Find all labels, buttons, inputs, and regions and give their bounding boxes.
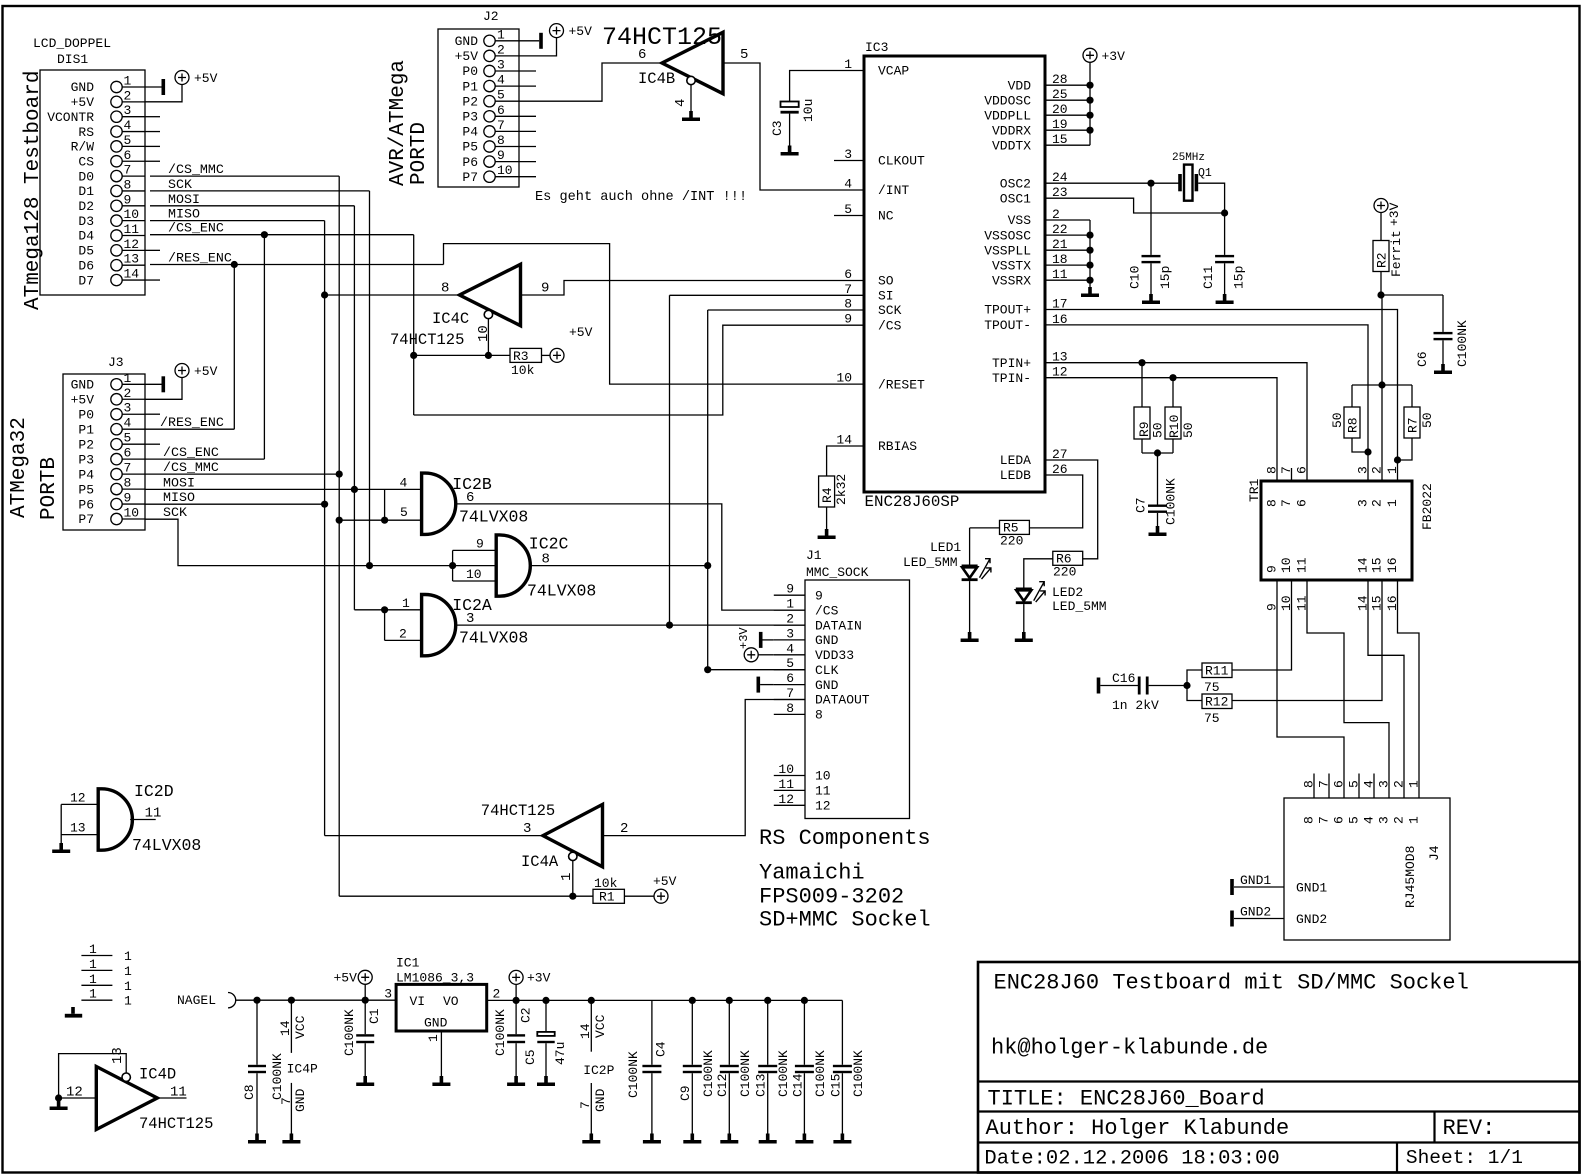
svg-text:R11: R11 (1205, 664, 1229, 679)
svg-text:J4: J4 (1427, 845, 1442, 861)
svg-text:P1: P1 (462, 79, 478, 94)
note RS Components Yamaichi (759, 826, 931, 933)
capacitor C3 10u on VCAP (770, 71, 864, 156)
svg-text:7: 7 (279, 1097, 294, 1105)
svg-text:P0: P0 (462, 64, 478, 79)
svg-text:74HCT125: 74HCT125 (481, 802, 555, 820)
svg-text:6: 6 (1295, 466, 1310, 474)
wire J3 P3 /CS_ENC (145, 445, 264, 460)
svg-text:CLK: CLK (815, 663, 839, 678)
svg-text:6: 6 (844, 267, 852, 282)
svg-text:IC4D: IC4D (139, 1066, 176, 1084)
svg-text:8: 8 (441, 281, 449, 297)
svg-text:14: 14 (278, 1020, 293, 1036)
IC IC3 ENC28J60SP (864, 40, 1045, 511)
connector J2 AVR/ATMega PORTD (438, 9, 519, 187)
svg-text:C4: C4 (654, 1041, 669, 1057)
svg-text:5: 5 (124, 431, 132, 446)
svg-text:6: 6 (1295, 499, 1310, 507)
svg-text:3: 3 (124, 401, 132, 416)
svg-text:C5: C5 (523, 1049, 538, 1065)
svg-text:74LVX08: 74LVX08 (459, 508, 528, 527)
svg-text:8: 8 (815, 708, 823, 723)
net MOSI wire D2 (150, 192, 354, 610)
svg-text:R8: R8 (1346, 417, 1361, 433)
IC3 pin3 CLKOUT stub (834, 160, 864, 162)
svg-text:75: 75 (1204, 711, 1220, 726)
IC4B enable pin4 to ground (682, 85, 700, 121)
resistor R3 10k pullup (510, 348, 550, 378)
svg-text:P4: P4 (78, 467, 94, 482)
svg-text:RS: RS (78, 125, 94, 140)
svg-text:C100NK: C100NK (626, 1051, 641, 1098)
svg-text:IC4C: IC4C (432, 310, 469, 328)
AND gate IC2B 74LVX08 (400, 473, 529, 534)
resistor R12 75 (1187, 686, 1232, 727)
wire OSC1 jog (1045, 198, 1228, 216)
power pins IC4P VCC GND (278, 1000, 318, 1143)
svg-text:GND: GND (71, 378, 95, 393)
svg-text:TPIN-: TPIN- (992, 371, 1031, 386)
resistor R4 2k32 on RBIAS (818, 446, 864, 539)
svg-text:P5: P5 (78, 482, 94, 497)
wire IC4B output to J2 P2 (519, 63, 662, 101)
capacitor C6 C100NK (1381, 295, 1470, 374)
svg-text:11: 11 (124, 222, 140, 237)
svg-text:D1: D1 (78, 184, 94, 199)
svg-text:VCC: VCC (593, 1014, 608, 1038)
wire IC4C enable pin 10 (414, 319, 510, 359)
wire J1 CLK junction (704, 666, 805, 673)
svg-text:47u: 47u (553, 1042, 568, 1065)
svg-text:4: 4 (400, 475, 408, 490)
svg-text:LEDB: LEDB (1000, 468, 1031, 483)
svg-text:16: 16 (1385, 557, 1400, 573)
+3V output rail wire (487, 997, 843, 1004)
svg-text:D2: D2 (78, 199, 94, 214)
svg-text:3: 3 (1356, 466, 1371, 474)
AND gate IC2C 74LVX08 (466, 535, 596, 601)
svg-text:15p: 15p (1158, 266, 1173, 289)
svg-text:15: 15 (1370, 557, 1385, 573)
svg-text:+3V: +3V (737, 627, 751, 649)
svg-text:3: 3 (497, 58, 505, 73)
buffer IC4D 74HCT125 unused (66, 1047, 213, 1133)
svg-text:220: 220 (1053, 565, 1076, 580)
J1 pin6 ground flag (757, 677, 774, 693)
svg-text:/CS_MMC: /CS_MMC (168, 162, 224, 177)
svg-text:DIS1: DIS1 (57, 52, 88, 67)
title block (978, 962, 1580, 1173)
svg-text:14: 14 (836, 433, 852, 448)
svg-text:R4: R4 (820, 487, 835, 503)
wire J3 P7 SCK (145, 505, 496, 569)
svg-text:LED2: LED2 (1052, 585, 1083, 600)
wire LEDA to R6 (1045, 460, 1098, 559)
svg-text:7: 7 (1279, 499, 1294, 507)
svg-text:10: 10 (466, 567, 482, 582)
svg-text:2: 2 (399, 626, 407, 641)
svg-text:1: 1 (124, 964, 132, 979)
resistor R1 10k pullup (593, 876, 654, 905)
svg-text:VCAP: VCAP (878, 64, 909, 79)
capacitor C4 C100NK (626, 1000, 669, 1143)
svg-text:7: 7 (786, 686, 794, 701)
svg-text:220: 220 (1000, 534, 1023, 549)
svg-text:C100NK: C100NK (1455, 320, 1470, 367)
svg-text:12: 12 (778, 792, 794, 807)
svg-text:VSSTX: VSSTX (992, 258, 1031, 273)
wire TR1 pin10 to R11 (1232, 595, 1292, 670)
svg-text:9: 9 (124, 491, 132, 506)
wire TR1 pin16 to J4 pin1 (1398, 595, 1420, 774)
svg-text:C6: C6 (1415, 351, 1430, 367)
svg-text:D4: D4 (78, 229, 94, 244)
label ATMega32 PORTB (8, 417, 61, 520)
svg-text:4: 4 (844, 177, 852, 192)
svg-text:1: 1 (402, 596, 410, 611)
svg-text:50: 50 (1181, 422, 1196, 438)
svg-text:8: 8 (124, 476, 132, 491)
svg-text:R1: R1 (599, 890, 615, 905)
J3 unconnected pin stubs (145, 414, 160, 444)
svg-text:AVR/ATMega: AVR/ATMega (387, 60, 410, 186)
svg-text:1: 1 (124, 371, 132, 386)
svg-text:GND: GND (455, 34, 479, 49)
J2 ground flag pin1 (519, 33, 543, 49)
svg-text:74HCT125: 74HCT125 (390, 331, 464, 349)
LED2 LED_5MM (1015, 582, 1107, 642)
capacitor C10 15p (1128, 183, 1174, 304)
svg-text:6: 6 (497, 103, 505, 118)
svg-text:DATAOUT: DATAOUT (815, 693, 870, 708)
svg-text:VO: VO (443, 994, 459, 1009)
svg-text:74HCT125: 74HCT125 (139, 1115, 213, 1133)
wire TR1 pin11 to J4 pin3 (1307, 595, 1389, 774)
connector J4 RJ45MOD8 (1234, 774, 1450, 941)
svg-text:/CS: /CS (815, 603, 839, 618)
svg-text:TPOUT-: TPOUT- (984, 318, 1031, 333)
svg-text:C1: C1 (367, 1008, 382, 1024)
svg-text:74LVX08: 74LVX08 (132, 836, 201, 855)
IC3 VDD rails to +3V flag (1045, 48, 1125, 145)
wire IC2B pin5 tie from /CS_MMC (336, 489, 422, 523)
svg-text:3: 3 (1377, 780, 1392, 788)
svg-text:10: 10 (476, 325, 492, 342)
svg-text:10: 10 (1279, 557, 1294, 573)
svg-text:4: 4 (1362, 816, 1377, 824)
resistor R7 50 (1398, 385, 1436, 460)
svg-text:R10: R10 (1167, 415, 1182, 438)
svg-text:13: 13 (70, 821, 86, 836)
svg-text:5: 5 (497, 88, 505, 103)
svg-text:P4: P4 (462, 125, 478, 140)
svg-text:TITLE: ENC28J60_Board: TITLE: ENC28J60_Board (988, 1087, 1265, 1112)
svg-text:J3: J3 (108, 355, 124, 370)
wire IC4B input from IC3 /INT (723, 63, 864, 190)
capacitor C14 C100NK (791, 1000, 829, 1143)
svg-text:P3: P3 (462, 110, 478, 125)
svg-text:SCK: SCK (168, 177, 192, 192)
svg-text:C100NK: C100NK (851, 1050, 866, 1097)
wire IC2C output 8 buffered SCK (529, 310, 864, 670)
svg-text:P2: P2 (462, 94, 478, 109)
svg-text:10k: 10k (511, 363, 535, 378)
svg-text:MISO: MISO (163, 490, 195, 505)
svg-text:2: 2 (1392, 780, 1407, 788)
svg-text:4: 4 (497, 73, 505, 88)
svg-text:10: 10 (815, 769, 831, 784)
svg-text:D3: D3 (78, 214, 94, 229)
svg-text:C100NK: C100NK (813, 1050, 828, 1097)
svg-text:MOSI: MOSI (168, 192, 200, 207)
svg-text:1: 1 (426, 1034, 441, 1042)
resistor R9 50 (1134, 363, 1166, 453)
svg-text:C8: C8 (242, 1084, 257, 1100)
DIS1 ground flag pin1 (145, 79, 165, 95)
wire IC2A input tie from MOSI (354, 606, 421, 640)
svg-text:Ferrit: Ferrit (1389, 230, 1404, 277)
J2 +5V supply flag pin2 (519, 24, 592, 56)
svg-text:REV:: REV: (1443, 1116, 1496, 1141)
svg-text:2: 2 (1392, 816, 1407, 824)
capacitor C13 C100NK (754, 1000, 792, 1143)
svg-text:9: 9 (124, 192, 132, 207)
svg-text:1: 1 (497, 27, 505, 42)
net /CS_ENC wire D4 (150, 221, 414, 459)
net /CS_MMC wire D0 (150, 162, 339, 896)
wire TPIN- to TR1 pin8 (1045, 374, 1277, 481)
svg-text:C9: C9 (678, 1085, 693, 1101)
svg-text:GND1: GND1 (1240, 873, 1271, 888)
svg-text:13: 13 (124, 252, 140, 267)
IC3 VSS rails to ground (1045, 220, 1099, 297)
svg-text:3: 3 (384, 987, 392, 1002)
svg-text:8: 8 (497, 133, 505, 148)
resistor R8 50 (1330, 381, 1412, 452)
wire IC4A enable pin 1 with /CS_MMC (339, 861, 593, 900)
svg-text:ENC28J60SP: ENC28J60SP (865, 493, 960, 511)
svg-text:9: 9 (815, 588, 823, 603)
svg-text:/RESET: /RESET (878, 377, 925, 392)
svg-text:SCK: SCK (163, 505, 187, 520)
svg-text:C16: C16 (1112, 671, 1135, 686)
ground flag GND1 (1230, 873, 1271, 895)
svg-text:4: 4 (673, 99, 689, 107)
svg-text:9: 9 (541, 281, 549, 297)
svg-text:75: 75 (1204, 680, 1220, 695)
svg-text:5: 5 (844, 202, 852, 217)
svg-text:MOSI: MOSI (163, 475, 195, 490)
svg-text:VDDTX: VDDTX (992, 138, 1031, 153)
buffer IC4B 74HCT125 (602, 23, 748, 107)
svg-text:DATAIN: DATAIN (815, 618, 862, 633)
LED1 LED_5MM (903, 528, 991, 642)
wire J3 P1 /RES_ENC (145, 415, 234, 430)
svg-text:5: 5 (400, 505, 408, 520)
svg-text:C100NK: C100NK (270, 1053, 285, 1100)
svg-text:3: 3 (1356, 499, 1371, 507)
+5V input rail wire (236, 997, 397, 1004)
J1 pin4 +3V supply flag (737, 627, 774, 662)
svg-text:6: 6 (124, 148, 132, 163)
svg-text:2: 2 (1370, 499, 1385, 507)
svg-text:RJ45MOD8: RJ45MOD8 (1403, 846, 1418, 908)
svg-text:TR1: TR1 (1247, 478, 1262, 502)
svg-text:VSSPLL: VSSPLL (984, 243, 1031, 258)
capacitor C7 C100NK (1134, 449, 1179, 536)
capacitor C5 47u polarized (523, 1000, 568, 1086)
svg-text:2: 2 (124, 88, 132, 103)
wire IC4A output 2 to J1 DATAOUT (603, 700, 806, 836)
power pins IC2P VCC GND (578, 1000, 615, 1143)
IC2D tied inputs to ground (52, 804, 156, 853)
connector J3 ATMega32 PORTB (63, 355, 145, 530)
svg-text:8: 8 (1265, 466, 1280, 474)
svg-text:1: 1 (1385, 499, 1400, 507)
svg-text:GND: GND (293, 1088, 308, 1112)
svg-text:14: 14 (1356, 557, 1371, 573)
svg-text:5: 5 (1347, 816, 1362, 824)
svg-text:C100NK: C100NK (776, 1050, 791, 1097)
svg-text:9: 9 (844, 312, 852, 327)
svg-text:Date:02.12.2006 18:03:00: Date:02.12.2006 18:03:00 (984, 1148, 1279, 1171)
TR1 pin2 wire center tap (1381, 295, 1383, 481)
svg-text:7: 7 (124, 163, 132, 178)
connector DIS1 LCD_DOPPEL (33, 36, 145, 295)
wire IC4A input 3 from MISO (325, 835, 543, 837)
svg-text:ENC28J60 Testboard mit SD/MMC: ENC28J60 Testboard mit SD/MMC Sockel (994, 971, 1469, 996)
svg-text:D6: D6 (78, 258, 94, 273)
label AVR/ATMega PORTD (387, 60, 431, 186)
svg-text:GND: GND (593, 1088, 608, 1112)
wire LEDB to R5 (1029, 475, 1082, 528)
connector J1 MMC_SOCK (774, 548, 910, 819)
resistor R6 220 (1024, 551, 1083, 587)
svg-text:P3: P3 (78, 452, 94, 467)
svg-text:10: 10 (778, 762, 794, 777)
svg-text:+5V: +5V (653, 874, 677, 889)
svg-text:C14: C14 (791, 1073, 806, 1097)
svg-text:12: 12 (815, 799, 831, 814)
svg-text:5: 5 (786, 656, 794, 671)
svg-text:6: 6 (638, 47, 646, 63)
wire IC4C output 8 to MISO (321, 291, 460, 298)
svg-text:C3: C3 (770, 120, 785, 136)
svg-text:C2: C2 (519, 1007, 534, 1023)
svg-text:14: 14 (124, 267, 140, 282)
svg-text:1: 1 (1385, 466, 1400, 474)
svg-text:8: 8 (1302, 816, 1317, 824)
svg-text:IC1: IC1 (396, 956, 420, 971)
svg-text:11: 11 (815, 784, 831, 799)
svg-text:SO: SO (878, 274, 894, 289)
svg-text:LEDA: LEDA (1000, 453, 1031, 468)
svg-text:Sheet: 1/1: Sheet: 1/1 (1406, 1147, 1523, 1169)
svg-text:/CS: /CS (878, 318, 902, 333)
svg-text:R/W: R/W (71, 140, 95, 155)
svg-text:VSSOSC: VSSOSC (984, 228, 1031, 243)
svg-text:C15: C15 (829, 1074, 844, 1097)
DIS1 unconnected pin stubs (145, 117, 160, 280)
svg-text:GND: GND (424, 1016, 448, 1031)
svg-text:6: 6 (1332, 780, 1347, 788)
svg-text:GND: GND (815, 633, 839, 648)
svg-text:C100NK: C100NK (1164, 478, 1179, 525)
capacitor C1 C100NK (342, 1000, 382, 1086)
svg-text:VDD: VDD (1008, 78, 1032, 93)
svg-text:C100NK: C100NK (342, 1009, 357, 1056)
svg-text:LCD_DOPPEL: LCD_DOPPEL (33, 36, 111, 51)
svg-text:NC: NC (878, 209, 894, 224)
svg-text:+5V: +5V (569, 325, 593, 340)
svg-text:+5V: +5V (334, 971, 358, 986)
svg-text:7: 7 (124, 461, 132, 476)
svg-text:R12: R12 (1205, 695, 1228, 710)
svg-text:/CS_ENC: /CS_ENC (163, 445, 219, 460)
svg-text:GND2: GND2 (1296, 912, 1327, 927)
wire TR1 pin14 to J4 pin2 (1368, 595, 1404, 774)
connector NAGEL single pin (177, 993, 236, 1009)
svg-text:1: 1 (124, 979, 132, 994)
svg-text:1: 1 (124, 74, 132, 89)
net MISO wire D3 (150, 207, 325, 836)
svg-text:VCONTR: VCONTR (47, 110, 94, 125)
buffer IC4A 74HCT125 DATAOUT driver (481, 802, 629, 881)
svg-text:5: 5 (1347, 780, 1362, 788)
svg-text:OSC1: OSC1 (1000, 191, 1031, 206)
svg-text:VSS: VSS (1008, 213, 1032, 228)
svg-text:C11: C11 (1201, 265, 1216, 289)
svg-text:VDDPLL: VDDPLL (984, 108, 1031, 123)
IC3 right pin labels (984, 72, 1068, 483)
svg-text:10u: 10u (801, 99, 816, 122)
svg-text:12: 12 (70, 790, 86, 805)
svg-text:15p: 15p (1232, 266, 1247, 289)
svg-text:VCC: VCC (293, 1015, 308, 1039)
AND gate IC2D 74LVX08 unused (70, 782, 201, 855)
DIS1 +5V supply flag pin2 (145, 71, 218, 102)
IC3 pin5 NC stub (834, 215, 864, 217)
svg-text:IC3: IC3 (865, 40, 888, 55)
svg-text:VDD33: VDD33 (815, 648, 854, 663)
wire TR1 pin9 to J4 pin6 (1277, 595, 1344, 774)
capacitor C8 C100NK (242, 1000, 285, 1143)
svg-text:2: 2 (497, 42, 505, 57)
wire J3 P5 MOSI to IC2B pin4 (145, 475, 422, 493)
svg-text:C100NK: C100NK (701, 1050, 716, 1097)
svg-text:MISO: MISO (168, 207, 200, 222)
svg-text:12: 12 (124, 237, 140, 252)
capacitor C11 15p (1201, 213, 1247, 304)
svg-text:D0: D0 (78, 169, 94, 184)
svg-text:11: 11 (1295, 557, 1310, 573)
svg-text:1: 1 (89, 987, 97, 1002)
svg-text:GND2: GND2 (1240, 905, 1271, 920)
svg-text:/CS_ENC: /CS_ENC (168, 221, 224, 236)
TR1 pin numbers (1265, 466, 1401, 611)
svg-text:4: 4 (786, 641, 794, 656)
svg-text:9: 9 (1265, 565, 1280, 573)
resistor R2 Ferrit (1373, 213, 1404, 299)
svg-text:C10: C10 (1128, 266, 1143, 289)
svg-text:1n 2kV: 1n 2kV (1112, 698, 1159, 713)
svg-text:NAGEL: NAGEL (177, 993, 216, 1008)
J2 unconnected pin stubs (519, 71, 536, 177)
svg-text:J1: J1 (806, 548, 822, 563)
svg-text:ATMega32: ATMega32 (8, 417, 31, 518)
IC3 left pin labels (836, 57, 925, 454)
